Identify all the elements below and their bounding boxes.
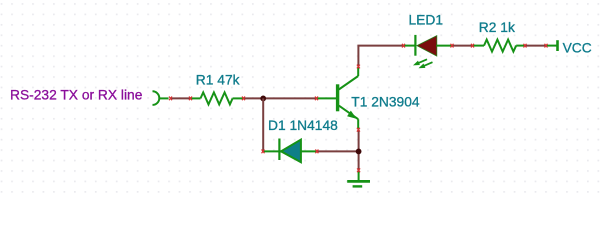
diode D1 — [263, 139, 317, 163]
pin mark: connector pin — [169, 97, 172, 101]
LED LED1 — [404, 35, 453, 56]
pin mark: R2 pin 2 — [524, 44, 527, 48]
LED1 emission arrow 1 — [413, 59, 427, 65]
pin mark: R1 pin 1 — [189, 97, 192, 101]
pin mark: D1 cathode — [262, 150, 265, 154]
resistor R2 — [473, 40, 525, 52]
wire: R2 to VCC terminal — [525, 45, 546, 47]
LED1 emission arrow 2 — [419, 62, 433, 68]
pin mark: LED1 cathode — [402, 44, 405, 48]
svg-text:VCC: VCC — [563, 41, 592, 56]
wire: LED1 to R2 — [452, 45, 473, 47]
svg-text:RS-232 TX or RX line: RS-232 TX or RX line — [10, 87, 143, 102]
resistor R1 — [191, 92, 244, 104]
ground — [347, 171, 370, 187]
wire: connector to R1 — [171, 97, 191, 99]
pin mark: T1 base — [315, 97, 318, 101]
pin mark: D1 anode — [315, 150, 318, 154]
pin mark: T1 emitter — [357, 128, 360, 132]
svg-text:T1 2N3904: T1 2N3904 — [351, 95, 420, 110]
wire: T1 emitter down through node B to ground — [358, 130, 360, 171]
pin mark: T1 collector — [357, 65, 360, 69]
pin mark: R2 pin 1 — [471, 44, 474, 48]
node B junction dot — [356, 149, 362, 155]
pin mark: VCC pin — [545, 44, 548, 48]
wire: D1 anode to node B — [317, 150, 359, 152]
svg-text:R1 47k: R1 47k — [196, 73, 240, 88]
wire: T1 collector up and over to LED1 — [358, 46, 404, 67]
pin mark: ground pin — [357, 168, 360, 172]
svg-text:D1 1N4148: D1 1N4148 — [268, 118, 338, 133]
svg-text:R2 1k: R2 1k — [479, 20, 515, 35]
wire: node A down to D1 cathode — [262, 98, 264, 151]
node A junction dot — [260, 96, 266, 102]
connector J1 (RS-232 line input, open-arc pin) — [153, 91, 169, 105]
wire: R1 to node A and to T1 base — [244, 97, 317, 99]
pin mark: LED1 anode — [451, 44, 454, 48]
power terminal VCC — [546, 40, 558, 51]
svg-text:LED1: LED1 — [409, 13, 444, 28]
pin mark: R1 pin 2 — [242, 97, 245, 101]
transistor T1 (NPN 2N3904) — [317, 67, 358, 129]
